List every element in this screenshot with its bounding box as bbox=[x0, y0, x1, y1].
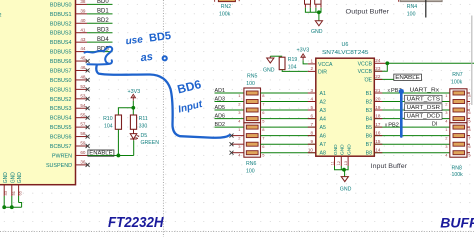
svg-text:A6: A6 bbox=[320, 134, 326, 140]
svg-text:AD6: AD6 bbox=[215, 114, 226, 120]
svg-text:as: as bbox=[140, 51, 154, 64]
svg-text:BCBUS2: BCBUS2 bbox=[50, 97, 72, 103]
svg-text:GREEN: GREEN bbox=[141, 140, 160, 146]
svg-text:AD5: AD5 bbox=[215, 105, 226, 111]
svg-text:PWREN: PWREN bbox=[52, 153, 72, 159]
pin 44 BDBUS5 bbox=[76, 51, 88, 53]
pin 54 BCBUS3 bbox=[76, 107, 88, 109]
svg-text:B2: B2 bbox=[366, 100, 372, 106]
svg-text:Output Buffer: Output Buffer bbox=[346, 8, 390, 15]
annotation vertical bar right bbox=[399, 89, 404, 94]
svg-text:41: 41 bbox=[80, 27, 86, 32]
svg-text:1: 1 bbox=[310, 59, 313, 64]
wire pack to U6 bbox=[261, 92, 316, 94]
U6 pin 10 A8 bbox=[308, 152, 316, 154]
svg-text:5: 5 bbox=[310, 105, 313, 110]
U6 pin 16 B6 bbox=[374, 135, 450, 137]
pin 40 BDBUS2 bbox=[76, 22, 88, 24]
wire net BD3 bbox=[87, 32, 113, 34]
U6 pin 1 VCCA bbox=[308, 63, 316, 65]
U6 pin 3 A1 bbox=[308, 92, 316, 94]
pin 39 BDBUS1 bbox=[76, 13, 88, 15]
svg-text:A8: A8 bbox=[320, 151, 326, 157]
svg-text:GND: GND bbox=[17, 172, 23, 184]
svg-text:100: 100 bbox=[246, 169, 255, 175]
U6 pin 24 VCCB bbox=[374, 62, 387, 64]
svg-text:59: 59 bbox=[80, 141, 86, 146]
svg-text:RN4: RN4 bbox=[407, 4, 417, 10]
wires to GND junction bbox=[305, 8, 321, 13]
wire net BD0 bbox=[87, 3, 113, 5]
pin 43 BDBUS4 bbox=[76, 41, 88, 43]
pin 51 GND bbox=[11, 185, 13, 196]
svg-text:GND: GND bbox=[10, 172, 16, 184]
RN2 pack bottom edge (cut) bbox=[218, 0, 235, 2]
svg-text:BCBUS6: BCBUS6 bbox=[50, 135, 72, 141]
svg-text:SUSPEND: SUSPEND bbox=[46, 163, 72, 169]
U6 pin 20 B2 bbox=[374, 101, 450, 103]
wire pack to U6 bbox=[261, 109, 316, 111]
LED D5 bbox=[130, 129, 139, 140]
svg-text:+3V3: +3V3 bbox=[128, 89, 141, 95]
no-connect x bbox=[86, 68, 90, 72]
wire up to LED bbox=[133, 140, 135, 155]
svg-text:RN8: RN8 bbox=[452, 166, 462, 172]
pin 57 BCBUS5 bbox=[76, 126, 88, 128]
svg-text:Input Buffer: Input Buffer bbox=[371, 163, 408, 170]
pin 65 GND bbox=[18, 185, 20, 196]
junction bbox=[131, 106, 135, 110]
svg-text:VCCB: VCCB bbox=[358, 69, 373, 75]
U6 pin 19 B3 bbox=[374, 109, 450, 111]
wire to R10 bbox=[118, 108, 133, 115]
no-connect x bbox=[86, 144, 90, 148]
global label UART_DSR bbox=[405, 104, 443, 111]
svg-text:BDBUS7: BDBUS7 bbox=[50, 68, 72, 74]
svg-text:100k: 100k bbox=[219, 12, 231, 18]
svg-text:14: 14 bbox=[375, 148, 381, 153]
U6 pin 12 GND bbox=[340, 156, 342, 166]
resistor R11 bbox=[130, 115, 136, 129]
pin 52 BCBUS1 bbox=[76, 88, 88, 90]
svg-text:BDBUS1: BDBUS1 bbox=[50, 12, 72, 18]
svg-text:BD2: BD2 bbox=[215, 122, 226, 128]
wire net BD2 bbox=[215, 126, 244, 128]
top components (cut off) bbox=[305, 0, 311, 4]
svg-text:B5: B5 bbox=[366, 125, 372, 131]
svg-text:45: 45 bbox=[80, 56, 86, 61]
svg-text:38: 38 bbox=[80, 0, 86, 4]
svg-text:55: 55 bbox=[80, 112, 86, 117]
pin 46 BDBUS7 bbox=[76, 69, 88, 71]
svg-text:A2: A2 bbox=[320, 100, 326, 106]
svg-text:100: 100 bbox=[246, 81, 255, 87]
pack bar pin ticks bbox=[214, 0, 216, 2]
svg-text:B1: B1 bbox=[366, 91, 372, 97]
wire R19 to DIR bbox=[282, 70, 308, 72]
no-connect x bbox=[86, 135, 90, 139]
svg-text:A1: A1 bbox=[320, 91, 326, 97]
ground symbol (R19) bbox=[269, 56, 271, 58]
wire net BD5 bbox=[87, 51, 113, 53]
svg-text:20: 20 bbox=[375, 96, 381, 101]
svg-text:17: 17 bbox=[375, 122, 381, 127]
ground symbol bbox=[341, 177, 348, 182]
svg-text:UART_CTS: UART_CTS bbox=[407, 97, 441, 103]
svg-text:60: 60 bbox=[80, 150, 86, 155]
svg-text:DIR: DIR bbox=[318, 69, 327, 75]
U6 pin 5 A3 bbox=[308, 109, 316, 111]
no-connect x bbox=[86, 97, 90, 101]
svg-text:BD3: BD3 bbox=[97, 28, 109, 34]
wire net AD1 bbox=[215, 92, 244, 94]
svg-text:AD1: AD1 bbox=[215, 88, 226, 94]
U6 pin 15 B7 bbox=[374, 143, 450, 145]
svg-text:D5: D5 bbox=[141, 133, 148, 139]
svg-text:BCBUS1: BCBUS1 bbox=[50, 87, 72, 93]
U6 pin 6 A4 bbox=[308, 118, 316, 120]
svg-text:100: 100 bbox=[407, 11, 416, 17]
svg-text:A3: A3 bbox=[320, 108, 326, 114]
svg-text:B6: B6 bbox=[366, 134, 372, 140]
svg-text:BCBUS5: BCBUS5 bbox=[50, 125, 72, 131]
wire net BD4 bbox=[87, 41, 113, 43]
no-connect x bbox=[86, 125, 90, 129]
svg-text:B8: B8 bbox=[366, 151, 372, 157]
svg-text:GND: GND bbox=[340, 186, 352, 192]
svg-text:GND: GND bbox=[333, 144, 339, 155]
wire pack to U6 bbox=[261, 126, 316, 128]
svg-text:BDBUS6: BDBUS6 bbox=[50, 59, 72, 65]
no-connect x bbox=[86, 116, 90, 120]
junction bbox=[342, 168, 346, 172]
svg-text:13: 13 bbox=[344, 161, 348, 165]
svg-text:43: 43 bbox=[3, 190, 8, 195]
svg-text:GND: GND bbox=[347, 144, 353, 155]
annotation big curve bbox=[96, 65, 229, 138]
junction bbox=[317, 10, 321, 14]
resistor R19 bbox=[279, 57, 285, 69]
RN6 unconnected pin stub bbox=[232, 135, 244, 137]
svg-text:BCBUS7: BCBUS7 bbox=[50, 144, 72, 150]
wire net AD3 bbox=[215, 101, 244, 103]
svg-text:22: 22 bbox=[375, 74, 381, 79]
svg-text:6: 6 bbox=[310, 113, 313, 118]
svg-text:104: 104 bbox=[104, 123, 113, 129]
svg-text:100k: 100k bbox=[452, 172, 464, 178]
svg-text:RN6: RN6 bbox=[246, 161, 256, 167]
svg-text:3: 3 bbox=[310, 88, 313, 93]
svg-text:36: 36 bbox=[80, 159, 86, 164]
U6 pin 8 A6 bbox=[308, 135, 316, 137]
svg-text:PB2: PB2 bbox=[388, 123, 399, 129]
U6 pin 2 DIR bbox=[308, 70, 316, 72]
svg-text:19: 19 bbox=[375, 105, 381, 110]
no-connect x bbox=[86, 59, 90, 63]
svg-text:BD2: BD2 bbox=[97, 18, 109, 24]
svg-text:51: 51 bbox=[11, 190, 16, 195]
wire VCCB to right edge bbox=[387, 62, 474, 64]
global label UART_CTS bbox=[405, 95, 443, 102]
no-connect x bbox=[86, 78, 90, 82]
pin 60 PWREN bbox=[76, 154, 88, 156]
svg-text:100k: 100k bbox=[451, 80, 463, 86]
ground symbol (top) bbox=[315, 21, 322, 26]
svg-text:58: 58 bbox=[80, 131, 86, 136]
U6 pin 22 OE bbox=[374, 78, 394, 80]
svg-text:B3: B3 bbox=[366, 108, 372, 114]
no-connect x bbox=[86, 106, 90, 110]
pin 55 BCBUS4 bbox=[76, 117, 88, 119]
U6 pin 9 A7 bbox=[308, 143, 316, 145]
U6 pin 14 B8 bbox=[374, 152, 450, 154]
U6 pin 4 A2 bbox=[308, 101, 316, 103]
svg-text:46: 46 bbox=[80, 65, 86, 70]
svg-text:B7: B7 bbox=[366, 142, 372, 148]
svg-text:ENABLE: ENABLE bbox=[395, 75, 420, 81]
vertical black line from RN4 bbox=[425, 0, 427, 18]
global label ENABLE (right) bbox=[394, 74, 422, 80]
svg-text:R11: R11 bbox=[139, 116, 148, 122]
svg-text:2: 2 bbox=[0, 13, 2, 19]
svg-text:48: 48 bbox=[80, 75, 86, 80]
svg-text:R10: R10 bbox=[103, 116, 113, 122]
gray edge line bbox=[471, 16, 473, 106]
svg-text:SN74LVC8T245: SN74LVC8T245 bbox=[322, 50, 369, 56]
svg-text:BDBUS0: BDBUS0 bbox=[50, 2, 72, 8]
svg-text:RN5: RN5 bbox=[247, 73, 257, 79]
svg-text:RN7: RN7 bbox=[452, 72, 462, 78]
svg-text:UART_Rx: UART_Rx bbox=[410, 88, 440, 94]
svg-text:BCBUS4: BCBUS4 bbox=[50, 116, 72, 122]
pin 41 BDBUS3 bbox=[76, 32, 88, 34]
RN4 pack bottom edge (cut) bbox=[400, 0, 442, 2]
svg-text:BCBUS3: BCBUS3 bbox=[50, 106, 72, 112]
svg-text:44: 44 bbox=[80, 46, 86, 51]
U6 pin 18 B4 bbox=[374, 118, 450, 120]
wire net BD1 bbox=[87, 13, 113, 15]
U6 pin 11 GND bbox=[334, 156, 336, 166]
U6 pin 23 VCCB bbox=[374, 63, 387, 71]
junction bbox=[385, 61, 389, 65]
svg-text:23: 23 bbox=[375, 66, 381, 71]
svg-text:40: 40 bbox=[80, 18, 86, 23]
resistor network RN8 bbox=[450, 123, 467, 157]
GND bracket wires bbox=[335, 166, 349, 170]
no-connect x bbox=[230, 151, 234, 155]
svg-text:54: 54 bbox=[80, 103, 86, 108]
svg-text:43: 43 bbox=[80, 37, 86, 42]
svg-text:11: 11 bbox=[330, 161, 334, 165]
svg-text:2: 2 bbox=[310, 66, 313, 71]
pin 45 BDBUS6 bbox=[76, 60, 88, 62]
svg-text:BDBUS3: BDBUS3 bbox=[50, 31, 72, 37]
svg-text:UART_DCD: UART_DCD bbox=[407, 114, 441, 120]
wire pack to U6 bbox=[261, 152, 316, 154]
pin 53 BCBUS2 bbox=[76, 98, 88, 100]
svg-text:BD4: BD4 bbox=[97, 37, 109, 43]
no-connect x bbox=[86, 87, 90, 91]
svg-text:330: 330 bbox=[139, 123, 148, 129]
no-connect x bbox=[230, 134, 234, 138]
svg-text:18: 18 bbox=[375, 113, 381, 118]
svg-text:57: 57 bbox=[80, 122, 86, 127]
wire pack to U6 bbox=[261, 118, 316, 120]
U6 pin 13 GND bbox=[347, 156, 349, 166]
svg-text:DI: DI bbox=[432, 121, 438, 127]
pin 38 BDBUS0 bbox=[76, 3, 88, 5]
annotation squiggle at pins 45/46 bbox=[85, 51, 105, 53]
no-connect x bbox=[230, 142, 234, 146]
pin 43 GND bbox=[3, 185, 5, 196]
wire ENABLE net bbox=[87, 154, 134, 156]
wire net AD6 bbox=[215, 118, 244, 120]
wire pack to U6 bbox=[261, 143, 316, 145]
svg-text:VCCB: VCCB bbox=[358, 61, 373, 67]
svg-text:GND: GND bbox=[3, 172, 9, 184]
svg-text:BDBUS4: BDBUS4 bbox=[50, 40, 72, 46]
svg-text:8: 8 bbox=[310, 130, 313, 135]
svg-text:9: 9 bbox=[310, 139, 313, 144]
global label ENABLE bbox=[88, 150, 114, 156]
svg-text:A5: A5 bbox=[320, 125, 326, 131]
svg-text:7: 7 bbox=[310, 122, 313, 127]
svg-text:A4: A4 bbox=[320, 117, 326, 123]
svg-text:use: use bbox=[125, 34, 144, 47]
svg-text:BCBUS0: BCBUS0 bbox=[50, 78, 72, 84]
svg-text:A7: A7 bbox=[320, 142, 326, 148]
wire pack to U6 bbox=[261, 135, 316, 137]
svg-text:BUFFER: BUFFER bbox=[440, 214, 474, 230]
svg-text:BD0: BD0 bbox=[97, 0, 109, 5]
wire GND to R19 bbox=[270, 55, 282, 57]
wire pack to U6 bbox=[261, 101, 316, 103]
svg-text:52: 52 bbox=[80, 84, 86, 89]
RN6 unconnected pin stub bbox=[232, 152, 244, 154]
svg-text:RN2: RN2 bbox=[221, 4, 231, 10]
svg-text:+3V3: +3V3 bbox=[297, 47, 310, 53]
pin 36 SUSPEND bbox=[76, 164, 88, 166]
svg-text:39: 39 bbox=[80, 8, 86, 13]
svg-text:FT2232H: FT2232H bbox=[108, 215, 164, 231]
wire net BD2 bbox=[87, 22, 113, 24]
svg-text:15: 15 bbox=[375, 139, 381, 144]
svg-text:BD1: BD1 bbox=[97, 9, 109, 15]
svg-text:65: 65 bbox=[18, 190, 23, 195]
RN6 unconnected pin stub bbox=[232, 143, 244, 145]
GND bus wires bbox=[3, 196, 5, 207]
svg-text:UART_DSR: UART_DSR bbox=[407, 105, 441, 111]
junction bbox=[117, 154, 121, 158]
svg-text:12: 12 bbox=[337, 161, 341, 165]
svg-text:104: 104 bbox=[288, 65, 297, 71]
pin 58 BCBUS6 bbox=[76, 136, 88, 138]
svg-text:U6: U6 bbox=[342, 42, 349, 48]
svg-text:R19: R19 bbox=[288, 57, 298, 63]
svg-text:ENABLE: ENABLE bbox=[89, 151, 113, 157]
wire net AD5 bbox=[215, 109, 244, 111]
pin 59 BCBUS7 bbox=[76, 145, 88, 147]
pin 48 BCBUS0 bbox=[76, 79, 88, 81]
global label UART_DCD bbox=[405, 112, 443, 119]
svg-text:B4: B4 bbox=[366, 117, 372, 123]
svg-text:4: 4 bbox=[310, 96, 313, 101]
U6 pin 21 B1 bbox=[374, 92, 450, 94]
svg-text:24: 24 bbox=[375, 58, 381, 63]
svg-text:GND: GND bbox=[311, 29, 323, 35]
svg-text:53: 53 bbox=[80, 93, 86, 98]
IC U1 FT2232H bbox=[0, 0, 76, 185]
svg-text:16: 16 bbox=[375, 130, 381, 135]
svg-text:OE: OE bbox=[365, 77, 373, 83]
svg-text:10: 10 bbox=[308, 148, 314, 153]
svg-text:AD3: AD3 bbox=[215, 96, 226, 102]
U6 pin 7 A5 bbox=[308, 126, 316, 128]
resistor network RN6 bbox=[244, 123, 261, 157]
resistor R10 bbox=[115, 115, 121, 129]
svg-text:21: 21 bbox=[375, 88, 381, 93]
U6 pin 17 B5 bbox=[374, 126, 450, 128]
svg-text:BDBUS5: BDBUS5 bbox=[50, 50, 72, 56]
svg-text:BDBUS2: BDBUS2 bbox=[50, 21, 72, 27]
wire R10 to ENABLE bbox=[117, 129, 119, 155]
svg-text:VCCA: VCCA bbox=[318, 62, 333, 68]
svg-text:GND: GND bbox=[263, 67, 275, 73]
svg-text:GND: GND bbox=[340, 144, 346, 155]
